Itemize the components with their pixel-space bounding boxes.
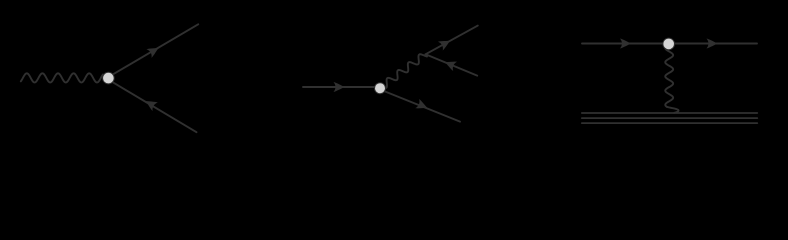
- vertex dot (diagram 3): [663, 38, 675, 50]
- photon wavy vertical (diagram 3): [665, 49, 673, 107]
- arrowhead (diagram 3 right of vertex): [707, 39, 718, 49]
- wire pair electron (diagram 2 upper outgoing): [426, 26, 478, 55]
- wire electron incoming (diagram 2 left line): [303, 86, 376, 88]
- vertex dot (diagram 2): [375, 83, 386, 94]
- wire positron line lower (diagram 1 incoming-arrow fermion): [111, 81, 197, 132]
- photon gamma (diagram 1 incoming wavy line): [21, 73, 103, 82]
- arrowhead (diagram 1 upper line, outgoing): [146, 43, 161, 57]
- vertex dot (diagram 1): [103, 72, 115, 84]
- arrowhead (diagram 2 upper pair line): [438, 36, 453, 50]
- arrowhead (diagram 2 incoming line): [334, 82, 345, 92]
- wire electron line (diagram 3 horizontal top): [582, 43, 757, 45]
- arrowhead (diagram 2 outgoing lower line): [415, 99, 429, 113]
- arrowhead (diagram 3 left of vertex): [620, 39, 631, 49]
- arrowhead (diagram 1 lower line, pointing to vertex): [143, 97, 158, 111]
- wire electron outgoing (diagram 2 lower right line): [384, 91, 460, 122]
- nucleus external-field triple line (diagram 3 bottom): [582, 113, 758, 123]
- photon end hook (diagram 3 wavy tail): [667, 107, 679, 113]
- wire electron line upper (diagram 1 outgoing fermion): [111, 24, 199, 76]
- wire pair positron (diagram 2 lower, arrow toward junction): [426, 54, 478, 75]
- arrowhead (diagram 2 lower pair line, pointing to junction): [443, 57, 457, 71]
- photon wavy (diagram 2 vertex to pair junction): [385, 54, 427, 88]
